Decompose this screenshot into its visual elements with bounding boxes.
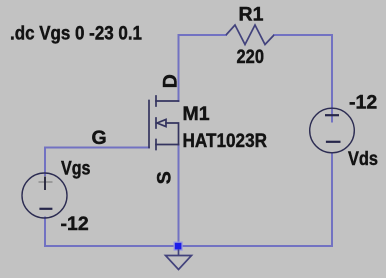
svg-text:HAT1023R: HAT1023R	[183, 130, 268, 152]
svg-text:D: D	[160, 74, 182, 88]
svg-text:-12: -12	[349, 92, 377, 114]
svg-text:-12: -12	[61, 213, 89, 235]
svg-text:220: 220	[237, 46, 265, 68]
svg-text:S: S	[154, 171, 176, 184]
svg-text:R1: R1	[239, 4, 264, 26]
svg-text:G: G	[92, 127, 107, 149]
svg-text:M1: M1	[183, 103, 210, 125]
svg-text:Vgs: Vgs	[61, 158, 91, 180]
svg-text:Vds: Vds	[348, 148, 378, 170]
svg-text:.dc Vgs 0 -23 0.1: .dc Vgs 0 -23 0.1	[10, 23, 142, 45]
